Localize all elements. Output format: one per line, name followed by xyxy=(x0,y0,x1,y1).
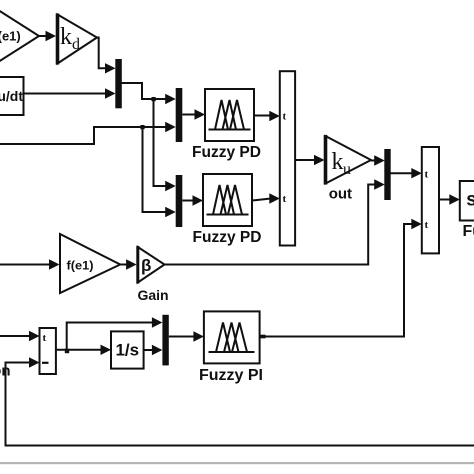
block Fuzzy PD 2 xyxy=(203,174,252,226)
wire B2 to output block xyxy=(439,194,460,204)
wire 1/s to mux M5 input 2 xyxy=(144,345,163,355)
mux M3 xyxy=(176,175,183,227)
svg-text:t: t xyxy=(283,193,287,205)
svg-text:β: β xyxy=(141,256,151,275)
svg-text:1/s: 1/s xyxy=(115,341,139,360)
wire reference input to sum S1 input 1 xyxy=(0,331,40,341)
node junction on M2 input 1 branch xyxy=(152,97,156,101)
wire Fuzzy PI to selector B2 input 2 xyxy=(260,219,422,337)
wire branch to mux M3 input 1 xyxy=(154,99,176,191)
wire M5 to Fuzzy PI xyxy=(169,331,204,341)
derivative block du/dt (clipped at left edge) xyxy=(0,77,24,115)
output port nub of Fuzzy PI xyxy=(260,335,266,339)
svg-text:f(e1): f(e1) xyxy=(67,259,94,273)
svg-text:u: u xyxy=(343,161,351,178)
wire M1 to mux M2 input 1 xyxy=(122,83,176,104)
mux M1 xyxy=(115,59,122,108)
block Fuzzy PI xyxy=(204,311,260,363)
wire f(e1) to Kd with arrowhead xyxy=(39,31,56,41)
function block f(e1) lower xyxy=(60,234,120,293)
wire Fuzzy PD 2 to selector B1 input 2 xyxy=(252,193,280,203)
wire f(e1) lower to gain Beta xyxy=(120,259,136,269)
function block f(e1) top (clipped at left edge) xyxy=(0,1,39,71)
node junction on M2 input 2 branch xyxy=(140,125,144,129)
integrator 1/s xyxy=(111,331,144,368)
svg-text:Fuzzy PI: Fuzzy PI xyxy=(199,367,263,384)
caption separator line xyxy=(0,462,474,464)
svg-text:Fuzzy PD: Fuzzy PD xyxy=(192,144,261,161)
svg-text:Fuzzy PD: Fuzzy PD xyxy=(193,229,262,246)
svg-text:Gain: Gain xyxy=(137,287,168,303)
output block s (clipped at right edge) xyxy=(460,181,474,221)
feedback wire from bottom to sum S1 input 2 xyxy=(6,357,474,445)
mux M2 xyxy=(176,88,183,142)
wire branch S1 output to mux M5 input 1 xyxy=(67,317,163,350)
wire B1 to gain Ku xyxy=(295,155,324,165)
wire Ku to mux M4 input 1 xyxy=(371,155,385,165)
selector B1 (tall thin block) xyxy=(280,71,295,245)
wire error input to function block f(e1) lower xyxy=(0,259,60,269)
gain Beta xyxy=(138,246,165,284)
wire error input to mux M2 input 2 xyxy=(0,122,176,144)
selector B2 (tall thin block) xyxy=(422,147,439,253)
node junction on S1 output xyxy=(65,349,69,353)
gain Kd xyxy=(58,14,98,65)
svg-text:si: si xyxy=(466,189,474,210)
svg-text:t: t xyxy=(43,332,47,344)
wire M2 to Fuzzy PD 1 xyxy=(182,109,205,119)
svg-text:t: t xyxy=(425,169,429,181)
mux M5 xyxy=(162,315,168,366)
svg-text:Fuz: Fuz xyxy=(463,223,474,240)
wire S1 output to integrator xyxy=(56,345,111,355)
svg-text:d: d xyxy=(72,36,80,53)
wire Fuzzy PD 1 to selector B1 input 1 xyxy=(254,111,280,121)
svg-text:t: t xyxy=(283,111,287,123)
svg-text:du/dt: du/dt xyxy=(0,88,23,104)
svg-text:k: k xyxy=(332,149,344,175)
sum S1 (thin block with t and minus) xyxy=(40,328,56,374)
svg-text:t: t xyxy=(425,219,429,231)
wire Kd to mux M1 input 1 xyxy=(97,38,116,74)
wire M4 to selector B2 input 1 xyxy=(390,168,422,178)
block Fuzzy PD 1 xyxy=(205,89,254,141)
wire du/dt to mux M1 input 2 xyxy=(24,88,116,98)
wire M3 to Fuzzy PD 2 xyxy=(182,195,203,205)
svg-text:k: k xyxy=(60,24,72,50)
mux M4 xyxy=(384,149,390,200)
svg-text:out: out xyxy=(329,186,352,203)
svg-text:f(e1): f(e1) xyxy=(0,29,21,44)
wire branch to mux M3 input 2 xyxy=(143,127,176,217)
gain Ku xyxy=(326,135,372,185)
wire gain Beta to mux M4 input 2 xyxy=(165,179,385,264)
